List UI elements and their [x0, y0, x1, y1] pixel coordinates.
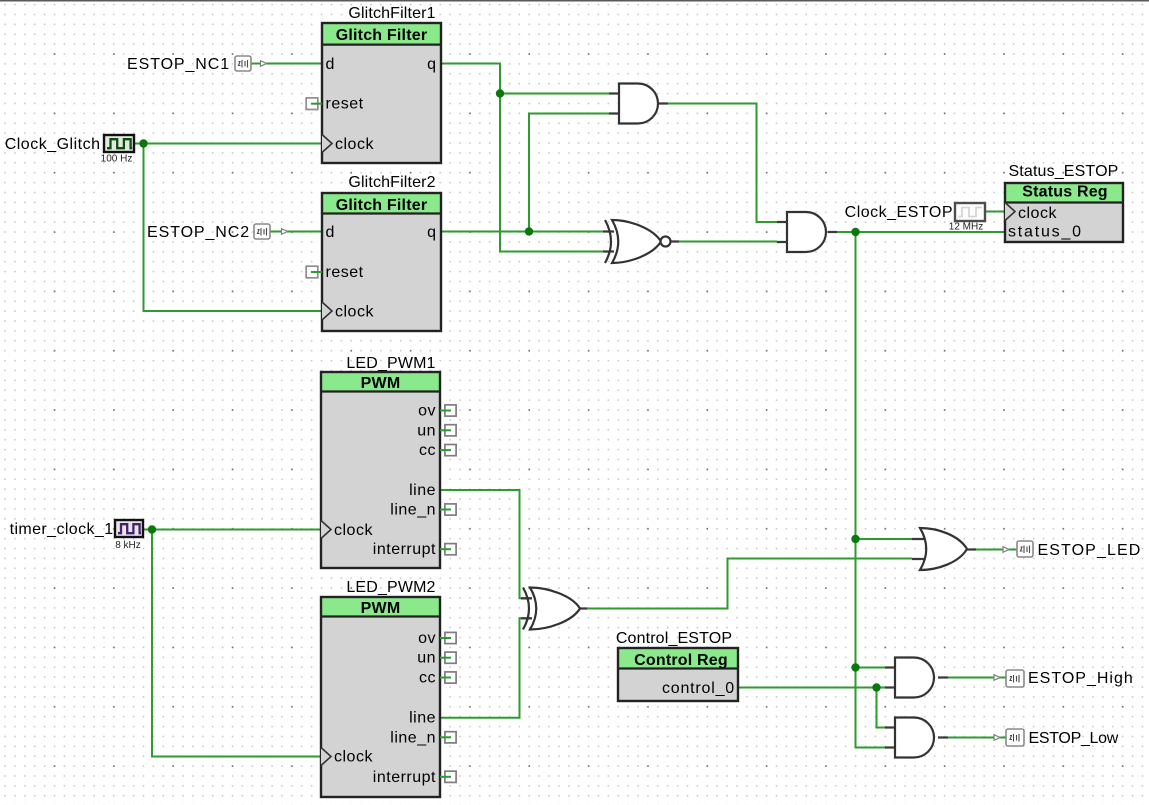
- svg-text:ov: ov: [418, 403, 436, 420]
- and gate U4 (ESTOP_Low): [895, 718, 934, 758]
- svg-text:cc: cc: [419, 670, 436, 687]
- clock chevron PWM1: [321, 521, 331, 539]
- svg-text:Control_ESTOP: Control_ESTOP: [616, 630, 732, 647]
- and gate U3 (ESTOP_High): [895, 658, 934, 698]
- svg-text:ESTOP_NC1: ESTOP_NC1: [127, 56, 230, 73]
- node OR branch: [851, 535, 859, 543]
- terminal un2: [440, 652, 456, 663]
- svg-text:LED_PWM1: LED_PWM1: [346, 355, 435, 372]
- svg-text:clock: clock: [334, 522, 373, 539]
- svg-text:PWM: PWM: [361, 375, 401, 392]
- wire Clock_Glitch to GF1.clock: [134, 143, 322, 145]
- node timer_clock_1: [148, 525, 156, 533]
- wire timer branch to PWM2.clock: [152, 530, 321, 757]
- svg-text:q: q: [427, 224, 436, 241]
- svg-text:line_n: line_n: [390, 729, 436, 746]
- terminal interrupt: [440, 544, 456, 555]
- wire trunk branch to AND3 in1: [856, 667, 886, 669]
- gate input/output stubs: [521, 94, 976, 748]
- terminal ov2: [440, 632, 456, 643]
- wire XNOR out to AND2 in2: [678, 241, 777, 243]
- block GlitchFilter1: [306, 5, 441, 163]
- terminal cc: [440, 445, 456, 456]
- block LED_PWM1: [321, 355, 456, 568]
- wire branch x529 up to AND1 in2: [529, 114, 609, 232]
- svg-text:cc: cc: [419, 442, 436, 459]
- wire ESTOP_NC1 to GF1.d: [251, 63, 322, 65]
- svg-text:ESTOP_Low: ESTOP_Low: [1029, 730, 1119, 747]
- node GF1.q branch: [496, 89, 504, 97]
- block Status_ESTOP: [1005, 163, 1123, 242]
- svg-text:clock: clock: [334, 749, 373, 766]
- svg-text:interrupt: interrupt: [373, 541, 436, 558]
- wire AND3 out to ESTOP_High: [947, 677, 1006, 679]
- input pin ESTOP_NC1: [127, 56, 266, 73]
- wire AND4 out to ESTOP_Low: [947, 737, 1006, 739]
- and gate U2 (Clock_ESTOP): [787, 212, 826, 252]
- wire Clock_Glitch branch to GF2.clock: [144, 144, 323, 312]
- node AND3 branch: [851, 663, 859, 671]
- svg-text:clock: clock: [1018, 205, 1057, 222]
- terminal line_n: [440, 504, 456, 515]
- or gate U7 (ESTOP_LED): [920, 528, 967, 570]
- svg-text:ov: ov: [418, 630, 436, 647]
- input pin ESTOP_NC2: [147, 224, 287, 241]
- block LED_PWM2: [321, 579, 456, 797]
- node control branch: [872, 683, 880, 691]
- xnor gate U5: [605, 220, 671, 263]
- clock source Clock_Glitch: [5, 135, 134, 165]
- svg-text:GlitchFilter1: GlitchFilter1: [348, 5, 435, 22]
- svg-text:ESTOP_LED: ESTOP_LED: [1038, 542, 1142, 559]
- svg-text:Clock_ESTOP: Clock_ESTOP: [845, 204, 953, 221]
- svg-text:ESTOP_High: ESTOP_High: [1028, 670, 1134, 687]
- top canvas border: [0, 0, 1149, 2]
- reset terminal GF1: [306, 98, 318, 110]
- svg-text:control_0: control_0: [662, 680, 735, 697]
- output pin ESTOP_High: [994, 670, 1134, 687]
- clock chevron GF2: [322, 302, 332, 320]
- svg-text:PWM: PWM: [361, 600, 401, 617]
- reset terminal GF2: [306, 266, 318, 278]
- block Control_ESTOP: [616, 630, 738, 701]
- wire GF1.q to XNOR in2 (via x=500): [441, 64, 605, 252]
- wire AND2 out to Status.status_0: [836, 231, 1005, 233]
- xor gate U6: [523, 588, 580, 630]
- svg-text:100 Hz: 100 Hz: [101, 154, 133, 165]
- svg-text:8 kHz: 8 kHz: [115, 540, 141, 551]
- wire AND1 out to AND2 in1: [667, 104, 777, 223]
- svg-text:reset: reset: [326, 264, 364, 281]
- terminal un: [440, 425, 456, 436]
- svg-text:status_0: status_0: [1008, 224, 1083, 241]
- wire trunk branch to OR in1: [856, 538, 913, 540]
- svg-text:interrupt: interrupt: [373, 769, 436, 786]
- svg-text:Glitch Filter: Glitch Filter: [336, 197, 428, 214]
- terminal line_n2: [440, 732, 456, 743]
- svg-text:d: d: [326, 56, 335, 73]
- svg-text:timer_clock_1: timer_clock_1: [10, 521, 114, 538]
- svg-text:clock: clock: [335, 136, 374, 153]
- output pin ESTOP_Low: [994, 729, 1119, 747]
- svg-text:un: un: [417, 422, 436, 439]
- clock chevron PWM2: [321, 748, 331, 766]
- svg-text:line: line: [409, 482, 436, 499]
- svg-text:ESTOP_NC2: ESTOP_NC2: [147, 224, 250, 241]
- clock source timer_clock_1: [10, 520, 143, 551]
- terminal cc2: [440, 672, 456, 683]
- node GF2.q branch: [525, 227, 533, 235]
- output pin ESTOP_LED: [1003, 541, 1141, 559]
- wire XOR out to OR in2: [586, 559, 912, 609]
- svg-text:Status Reg: Status Reg: [1022, 184, 1108, 201]
- wire branch node x500 to AND1 in1: [500, 93, 609, 95]
- svg-text:line: line: [409, 710, 436, 727]
- and gate U1 (top): [619, 84, 658, 124]
- wire OR out to ESTOP_LED: [975, 549, 1017, 551]
- svg-text:Glitch Filter: Glitch Filter: [336, 27, 428, 44]
- wire timer_clock_1 to PWM1.clock: [143, 529, 321, 531]
- svg-text:Control Reg: Control Reg: [634, 652, 728, 669]
- svg-text:reset: reset: [326, 96, 364, 113]
- svg-text:Clock_Glitch: Clock_Glitch: [5, 136, 101, 153]
- wire trunk down from Clock_ESTOP node: [856, 232, 886, 748]
- svg-text:d: d: [326, 224, 335, 241]
- wire Clock_ESTOP icon to Status.clock: [985, 211, 1005, 213]
- wire control_0 to AND3 in2: [738, 687, 885, 689]
- terminal interrupt2: [440, 771, 456, 782]
- wire ESTOP_NC2 to GF2.d: [270, 231, 322, 233]
- svg-text:un: un: [417, 650, 436, 667]
- terminal ov: [440, 405, 456, 416]
- wire branch down to AND4 in1: [877, 688, 886, 728]
- svg-text:LED_PWM2: LED_PWM2: [346, 579, 435, 596]
- svg-text:clock: clock: [335, 304, 374, 321]
- clock chevron GF1: [322, 135, 332, 153]
- svg-text:GlitchFilter2: GlitchFilter2: [348, 174, 435, 191]
- svg-text:line_n: line_n: [390, 502, 436, 519]
- node Clock_Glitch: [139, 139, 147, 147]
- clock chevron Status: [1005, 203, 1015, 221]
- svg-text:12 MHz: 12 MHz: [949, 222, 983, 233]
- wire GF2.q to XNOR in1: [441, 231, 605, 233]
- wire PWM2.line to XOR in2: [440, 618, 523, 717]
- svg-text:q: q: [427, 56, 436, 73]
- clock source Clock_ESTOP: [845, 203, 985, 233]
- block GlitchFilter2: [306, 174, 441, 331]
- wire PWM1.line to XOR in1: [440, 490, 523, 598]
- node Clock_ESTOP: [851, 228, 859, 236]
- svg-text:Status_ESTOP: Status_ESTOP: [1008, 163, 1118, 180]
